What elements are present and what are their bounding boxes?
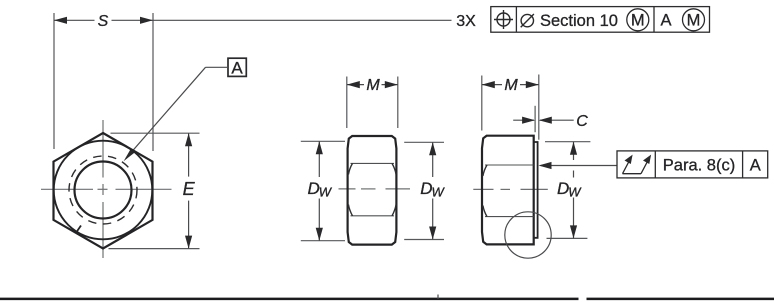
detail circle (washer face) xyxy=(505,212,551,258)
modifier circle M (datum) xyxy=(683,9,705,31)
right view washer face lip xyxy=(534,142,538,238)
diameter symbol xyxy=(521,14,534,27)
svg-text:W: W xyxy=(432,184,446,199)
FCF cell divider 2 xyxy=(653,7,655,33)
S dimension right extension line xyxy=(152,13,154,151)
S dimension left extension line xyxy=(53,13,55,149)
middle view DW right label xyxy=(420,179,445,199)
E dimension line lower segment xyxy=(188,201,190,249)
C dimension right arrow line xyxy=(540,119,574,121)
svg-text:M: M xyxy=(631,12,645,30)
datum A leader diagonal segment xyxy=(126,67,206,158)
right view horizontal centerline (dashed) xyxy=(473,188,548,190)
middle view DW left lower arrowhead xyxy=(316,228,323,241)
middle view DW right dimension line upper xyxy=(432,142,434,177)
hex nut front view: vertical centerline xyxy=(102,120,104,258)
datum A leader arrowhead xyxy=(124,149,135,161)
right view M dimension line right xyxy=(520,84,539,86)
svg-text:E: E xyxy=(183,179,196,199)
svg-text:3X: 3X xyxy=(456,13,476,30)
svg-text:Para. 8(c): Para. 8(c) xyxy=(663,156,735,174)
right view DW dimension line lower xyxy=(573,198,575,239)
middle view M left arrowhead xyxy=(347,81,360,88)
right view upper facet line xyxy=(485,164,534,166)
S dimension left arrowhead xyxy=(54,17,67,24)
middle view DW left label xyxy=(308,179,333,199)
middle view DW right lower arrowhead xyxy=(429,227,436,240)
leader line from S dimension to 3X note xyxy=(153,19,452,21)
right view DW dimension line upper xyxy=(573,142,575,160)
right view lower facet line xyxy=(485,216,534,218)
svg-text:A: A xyxy=(660,12,671,30)
right view DW top extension line xyxy=(545,141,590,143)
right view M right extension line xyxy=(538,75,540,140)
middle view DW right bottom extension line xyxy=(404,239,444,241)
svg-text:C: C xyxy=(576,113,588,130)
C dimension left arrow line xyxy=(513,119,534,121)
middle view M left extension line xyxy=(346,77,348,129)
total runout symbol xyxy=(623,160,649,174)
chamfer circle xyxy=(54,141,153,240)
svg-text:M: M xyxy=(687,12,701,30)
table top border right segment xyxy=(587,298,774,301)
middle view upper facet line xyxy=(351,162,395,164)
svg-text:Section 10: Section 10 xyxy=(540,12,618,30)
middle view lower facet line xyxy=(351,215,395,217)
svg-text:M: M xyxy=(504,77,518,94)
middle view DW left top extension line xyxy=(301,140,345,142)
svg-text:W: W xyxy=(568,184,582,199)
right view DW lower arrowhead xyxy=(570,225,577,238)
right view DW label xyxy=(557,179,582,199)
right view M left extension line xyxy=(481,76,483,131)
middle view DW right dimension line lower xyxy=(432,199,434,240)
right view M right arrowhead xyxy=(526,81,539,88)
thread circle (dashed) xyxy=(69,156,137,224)
hexagon outline xyxy=(54,133,153,249)
FCF cell divider 1 xyxy=(515,7,517,33)
table top border left segment xyxy=(0,298,579,301)
middle view corner edge curves xyxy=(348,163,396,215)
right view nut outline xyxy=(482,136,534,245)
right view M dimension line left xyxy=(482,84,502,86)
chamfer tick bottom-left xyxy=(77,226,82,233)
middle view M dimension line right xyxy=(382,84,398,86)
E dimension lower arrowhead xyxy=(185,236,192,249)
right view M left arrowhead xyxy=(482,81,495,88)
runout leader line xyxy=(541,165,618,167)
feature control frame (position) outline xyxy=(491,7,710,33)
hole circle xyxy=(75,162,132,219)
right view DW upper arrowhead xyxy=(570,142,577,155)
middle view DW left dimension line upper xyxy=(318,141,320,177)
middle view DW left upper arrowhead xyxy=(316,141,323,154)
middle view M dimension line left xyxy=(347,84,364,86)
E dimension upper arrowhead xyxy=(185,133,192,146)
middle view DW right top extension line xyxy=(404,141,444,143)
runout FCF divider 2 xyxy=(742,151,744,178)
middle view nut outline xyxy=(348,136,397,245)
S dimension line left segment xyxy=(54,19,95,21)
svg-text:A: A xyxy=(750,156,761,174)
datum A box xyxy=(228,58,246,76)
middle view M right arrowhead xyxy=(385,81,398,88)
E dimension bottom extension line xyxy=(109,248,200,250)
hex nut front view: horizontal centerline xyxy=(41,188,172,190)
C dimension left arrowhead (pointing right) xyxy=(522,117,535,124)
middle view DW right upper arrowhead xyxy=(429,142,436,155)
svg-text:S: S xyxy=(98,13,109,30)
right view DW dimension line middle dash xyxy=(573,171,575,178)
E dimension line upper segment xyxy=(188,133,190,176)
C dimension left extension line xyxy=(534,106,536,132)
right view DW bottom extension line xyxy=(547,237,588,239)
middle view DW left dimension line lower xyxy=(318,199,320,241)
svg-text:W: W xyxy=(319,184,333,199)
runout feature control frame outline xyxy=(617,151,768,178)
S dimension right arrowhead xyxy=(140,17,153,24)
runout FCF divider 1 xyxy=(654,151,656,178)
runout leader arrowhead (pointing left) xyxy=(539,162,552,169)
middle view horizontal centerline (dashed) xyxy=(339,188,411,190)
middle view M right extension line xyxy=(397,77,399,129)
svg-text:M: M xyxy=(366,77,380,94)
E dimension top extension line xyxy=(111,132,200,134)
middle view DW left bottom extension line xyxy=(301,240,345,242)
C dimension right arrowhead (pointing left) xyxy=(539,117,552,124)
S dimension line right segment xyxy=(112,19,154,21)
right view corner edge curves xyxy=(483,165,487,217)
svg-text:A: A xyxy=(231,58,243,77)
modifier circle M (tolerance) xyxy=(627,9,649,31)
datum A leader horizontal segment xyxy=(206,66,229,68)
table column tick xyxy=(437,295,439,299)
position symbol xyxy=(494,10,513,29)
